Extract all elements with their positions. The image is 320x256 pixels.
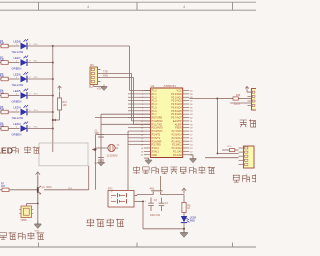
svg-text:P1.5: P1.5 xyxy=(152,106,158,109)
ground MCU right xyxy=(189,155,196,163)
svg-text:P3.5/T1: P3.5/T1 xyxy=(152,137,161,140)
power port VCC above R17 xyxy=(58,86,62,91)
sub-circuit outline box xyxy=(39,143,88,166)
svg-text:LED5: LED5 xyxy=(14,89,21,93)
resistor R2 xyxy=(0,55,20,64)
svg-text:AT89C51: AT89C51 xyxy=(164,84,177,88)
svg-text:P1.2: P1.2 xyxy=(152,96,158,99)
svg-text:510: 510 xyxy=(0,108,5,111)
resistor R7 base xyxy=(0,182,38,191)
power port VCC node xyxy=(182,188,186,194)
power port VCC play xyxy=(36,172,40,178)
svg-text:11.0592M: 11.0592M xyxy=(107,155,118,158)
wire corner down xyxy=(88,166,90,190)
svg-text:GND: GND xyxy=(35,231,40,233)
wire XTAL2 to MCU pin xyxy=(101,113,151,115)
resistor R11 vibration xyxy=(222,146,239,152)
resistor R17 xyxy=(57,92,67,121)
svg-text:YM08: YM08 xyxy=(20,219,27,222)
wire LED row 1 to bus xyxy=(27,45,53,47)
wire emitter down to ground xyxy=(37,204,39,225)
label: 片播放电路 xyxy=(0,232,44,239)
wire flame DOUT xyxy=(230,103,251,106)
connector JP1 xyxy=(89,64,101,88)
label: LED灯 电路 xyxy=(0,146,40,156)
svg-text:P0.6/AD6: P0.6/AD6 xyxy=(171,113,182,116)
svg-text:LED9: LED9 xyxy=(190,216,197,219)
ground crystal xyxy=(98,160,104,166)
svg-text:P0.5/AD5: P0.5/AD5 xyxy=(171,110,182,113)
LED LED6 (YELLOW) xyxy=(12,72,39,87)
svg-text:P1.1: P1.1 xyxy=(152,93,158,96)
op IC U1 AT89C51 MCU body xyxy=(151,84,183,158)
wire from MCU down to button xyxy=(160,176,162,191)
svg-text:P0.4/AD4: P0.4/AD4 xyxy=(171,106,182,109)
wire LED row 4 to bus xyxy=(27,95,53,97)
svg-text:LED6: LED6 xyxy=(14,72,21,76)
ground play circuit xyxy=(34,222,41,233)
svg-text:P1.7: P1.7 xyxy=(152,113,158,116)
svg-text:GND: GND xyxy=(152,154,158,157)
svg-text:P0.0/AD0: P0.0/AD0 xyxy=(171,93,182,96)
resistor R10 flame xyxy=(217,95,251,100)
svg-text:P2.3/A11: P2.3/A11 xyxy=(172,144,182,147)
svg-text:4K7: 4K7 xyxy=(1,185,6,188)
svg-text:P1.0: P1.0 xyxy=(152,90,158,93)
resistor R5 xyxy=(0,105,20,114)
label 11.0592M xyxy=(107,155,118,158)
svg-text:GREEN: GREEN xyxy=(12,67,22,71)
IC U2 flame sensor module xyxy=(248,89,260,111)
cap value labels xyxy=(150,215,161,217)
wire to vibration module xyxy=(217,153,238,155)
resistor R3 xyxy=(0,72,20,81)
battery BT1 xyxy=(108,187,143,207)
svg-text:DOUT: DOUT xyxy=(234,104,241,106)
svg-text:P2.4/A12: P2.4/A12 xyxy=(172,140,183,143)
junction row 4 xyxy=(52,95,54,97)
wire VCC stub xyxy=(37,177,39,179)
LED LED8 (YELLOW) xyxy=(12,39,39,54)
wire LED row 6 to bus xyxy=(27,128,53,130)
svg-text:YELLOW: YELLOW xyxy=(12,83,24,87)
svg-text:10K: 10K xyxy=(63,104,68,107)
label: 电源电路 xyxy=(87,219,124,227)
svg-text:P3.2/INT0: P3.2/INT0 xyxy=(152,127,164,130)
svg-text:JP1: JP1 xyxy=(90,64,95,67)
wire MCU P3.5 to play circuit xyxy=(96,134,144,189)
junction row 6 xyxy=(52,128,54,130)
wire XTAL1 to MCU pin xyxy=(95,117,151,119)
svg-text:RXD: RXD xyxy=(103,75,108,78)
wire LED row 3 to bus xyxy=(27,78,53,80)
wire collector run xyxy=(44,188,89,190)
svg-text:BT1: BT1 xyxy=(108,187,113,190)
capacitor C4 xyxy=(159,198,169,212)
svg-text:TXD: TXD xyxy=(103,71,108,74)
svg-text:P2.5/A13: P2.5/A13 xyxy=(172,137,183,140)
svg-text:P0.1/AD1: P0.1/AD1 xyxy=(171,96,182,99)
capacitor C2 xyxy=(95,158,106,166)
svg-text:P1.3: P1.3 xyxy=(152,100,158,103)
wire R17 to bus xyxy=(52,119,60,122)
junction row 3 xyxy=(52,78,54,80)
junction crystal lead xyxy=(92,148,97,152)
wire LED row 5 to bus xyxy=(27,111,53,113)
capacitor C3 xyxy=(145,198,158,212)
wire LED row 2 to bus xyxy=(27,62,53,64)
wire vertical to vibration xyxy=(216,98,218,155)
svg-text:P3.0/RXD: P3.0/RXD xyxy=(152,120,163,123)
LED LED4 (YELLOW) xyxy=(12,105,39,120)
LED common bus wire xyxy=(52,46,54,152)
wire bundle down to power circuit xyxy=(127,131,129,190)
label: 单片机最小系统电路 xyxy=(133,167,215,174)
resistor R4 xyxy=(0,88,20,97)
MCU pins right side xyxy=(171,90,193,157)
svg-text:R10: R10 xyxy=(236,95,241,97)
svg-text:LED3: LED3 xyxy=(14,122,21,126)
junction row 5 xyxy=(52,111,54,113)
ground at JP1 xyxy=(94,85,107,91)
wire JP1 pin3 to MCU P3.1 xyxy=(101,78,151,125)
wire button to VCC node xyxy=(161,194,184,196)
button AN1 xyxy=(150,188,163,195)
capacitor C1 xyxy=(95,130,105,138)
resistor R6 xyxy=(0,121,20,130)
svg-text:P0.3/AD3: P0.3/AD3 xyxy=(171,103,182,106)
svg-text:LED: LED xyxy=(0,146,13,156)
wire crystal vertical xyxy=(100,114,102,160)
svg-text:510: 510 xyxy=(0,92,5,95)
svg-text:P2.7/A15: P2.7/A15 xyxy=(172,130,183,133)
LED LED5 (GREEN) xyxy=(12,89,39,104)
power port VCC flame xyxy=(245,86,251,92)
resistor R8 xyxy=(182,195,191,216)
svg-text:9013: 9013 xyxy=(46,186,52,189)
wire MCU P0 to flame module xyxy=(189,98,217,100)
net labels TXD RXD xyxy=(103,71,108,78)
svg-text:BL1: BL1 xyxy=(89,86,94,89)
svg-text:P1.4: P1.4 xyxy=(152,103,158,106)
svg-text:VCC: VCC xyxy=(227,146,232,148)
svg-text:R17: R17 xyxy=(63,101,68,104)
wire bottom rail xyxy=(142,201,184,229)
wire LED to rail junction xyxy=(183,223,185,233)
svg-text:VCC: VCC xyxy=(177,90,182,93)
MCU left pin bundle wires xyxy=(128,94,144,145)
svg-text:1K: 1K xyxy=(187,207,190,210)
svg-text:510: 510 xyxy=(0,125,5,128)
svg-text:P1.6: P1.6 xyxy=(152,110,158,113)
wire JP1 pin2 to MCU P3.0 xyxy=(101,74,151,121)
svg-text:P3.6/WR: P3.6/WR xyxy=(152,140,162,143)
wire vibration lower xyxy=(205,157,239,159)
LED LED7 (GREEN) xyxy=(12,56,39,71)
svg-text:P2.0/A8: P2.0/A8 xyxy=(173,154,182,157)
wire LED row1 to MCU P1.0 xyxy=(53,46,151,91)
ground MCU left GND pin xyxy=(144,158,152,164)
LED9 power indicator xyxy=(181,216,197,223)
svg-text:GREEN: GREEN xyxy=(12,100,22,104)
IC U3 vibration module xyxy=(239,146,255,168)
label: 震动电路 xyxy=(233,175,269,183)
sheet border bottom zone ticks xyxy=(39,243,233,248)
svg-text:GREEN: GREEN xyxy=(12,133,22,137)
svg-text:RED: RED xyxy=(190,219,195,222)
svg-text:U1: U1 xyxy=(151,84,155,88)
MCU pins left side xyxy=(141,90,163,157)
junction row 1 xyxy=(52,45,54,47)
junction row 2 xyxy=(52,62,54,64)
svg-text:YELLOW: YELLOW xyxy=(12,116,24,120)
resistor R1 xyxy=(0,39,20,48)
LED LED3 (GREEN) xyxy=(12,122,39,137)
transistor Q1 9013 xyxy=(38,178,52,204)
wire crystal branch to MCU xyxy=(101,123,151,125)
ground power circuit xyxy=(180,230,187,237)
wire battery to rail xyxy=(137,195,153,196)
wire emitter to music chip xyxy=(27,203,39,206)
svg-text:PSEN: PSEN xyxy=(175,127,182,130)
sheet border top zone numbers xyxy=(87,4,186,9)
svg-text:AN1: AN1 xyxy=(150,188,155,191)
crystal Y1 xyxy=(96,144,120,152)
sheet border bottom line xyxy=(0,246,256,248)
svg-text:RST/VPD: RST/VPD xyxy=(152,117,163,120)
sheet border top outer line xyxy=(0,1,256,3)
svg-text:P0.2/AD2: P0.2/AD2 xyxy=(171,100,182,103)
svg-text:LED8: LED8 xyxy=(14,39,21,43)
svg-text:EA/VPP: EA/VPP xyxy=(173,120,182,123)
svg-text:510: 510 xyxy=(0,59,5,62)
svg-text:LED7: LED7 xyxy=(14,56,21,60)
sheet border top zone ticks xyxy=(39,2,233,10)
svg-text:10UF 104: 10UF 104 xyxy=(150,215,161,217)
svg-text:ALE/P: ALE/P xyxy=(175,123,182,126)
svg-text:P2.6/A14: P2.6/A14 xyxy=(172,134,183,137)
svg-text:P0.7/AD7: P0.7/AD7 xyxy=(171,117,182,120)
svg-text:P3.1/TXD: P3.1/TXD xyxy=(152,123,163,126)
IC music chip U4 xyxy=(19,206,33,222)
sheet border top inner line xyxy=(0,9,256,11)
label: 火焰传感器电路 xyxy=(240,120,267,128)
svg-text:510: 510 xyxy=(0,75,5,78)
svg-text:P3.3/INT1: P3.3/INT1 xyxy=(152,130,164,133)
svg-text:P2.1/A9: P2.1/A9 xyxy=(173,150,182,153)
svg-text:P2.2/A10: P2.2/A10 xyxy=(172,147,183,150)
svg-text:YELLOW: YELLOW xyxy=(12,50,24,54)
svg-text:P3.7/RD: P3.7/RD xyxy=(152,144,161,147)
svg-text:XTAL2: XTAL2 xyxy=(152,147,160,150)
net label +5V xyxy=(97,87,102,91)
svg-text:510: 510 xyxy=(0,42,5,45)
svg-text:P3.4/T0: P3.4/T0 xyxy=(152,134,161,137)
svg-text:XTAL1: XTAL1 xyxy=(152,150,160,153)
svg-text:LED4: LED4 xyxy=(14,105,21,109)
